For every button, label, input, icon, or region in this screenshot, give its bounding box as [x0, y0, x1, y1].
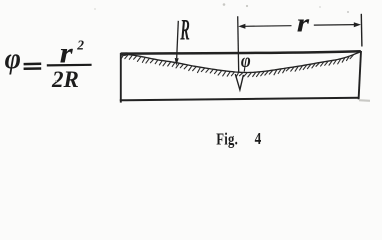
top-left corner blob [120, 53, 128, 56]
glass blank right edge [359, 51, 361, 99]
caption Fig. 4 [216, 130, 261, 149]
leader arrow R [175, 21, 179, 66]
svg-text:4: 4 [255, 130, 262, 149]
dimension extension tick right [360, 14, 363, 47]
svg-text:r: r [297, 9, 310, 38]
dimension r right segment [314, 24, 356, 27]
formula denominator 2R [51, 67, 79, 92]
bottom-right smudge [359, 99, 370, 102]
formula phi symbol [5, 42, 21, 75]
dimension label r [297, 9, 310, 38]
formula exponent 2 [76, 37, 84, 52]
glass blank bottom edge [120, 98, 359, 101]
label R [180, 14, 190, 47]
svg-text:φ: φ [5, 42, 21, 75]
center line [238, 16, 239, 72]
svg-text:Fig.: Fig. [216, 131, 238, 149]
scan speckles [55, 3, 349, 82]
glass blank left edge [120, 53, 122, 103]
glass blank top edge [121, 51, 361, 53]
svg-text:2: 2 [76, 37, 84, 52]
sag arrowhead [235, 74, 243, 90]
formula numerator r [60, 36, 74, 69]
svg-text:R: R [180, 14, 190, 47]
formula equals sign [24, 64, 42, 69]
sag label phi [241, 50, 251, 72]
concave surface curve [122, 52, 361, 73]
dimension r left arrowhead [238, 24, 245, 29]
dimension r right arrowhead [354, 22, 361, 27]
formula fraction bar [47, 64, 92, 67]
svg-text:φ: φ [241, 50, 251, 72]
dimension r left segment [245, 25, 292, 28]
svg-text:2R: 2R [51, 67, 79, 92]
surface hatching [121, 55, 353, 78]
